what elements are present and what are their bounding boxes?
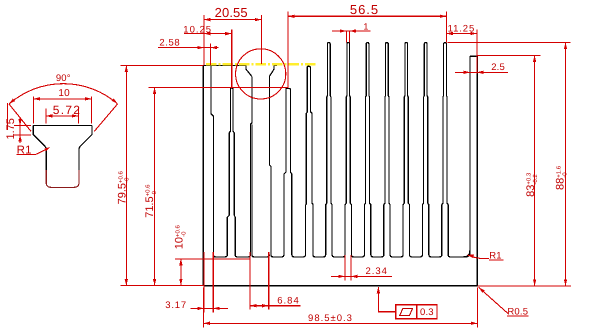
T-slot left lip cap (242, 65, 246, 67)
fin F left edge (284, 88, 287, 254)
detail dim 90deg: arc (9, 84, 118, 104)
ext line y=285.8 right (base bottom) (477, 285, 571, 287)
dim 2.58: line (158, 47, 219, 49)
detail dim 5.72: right extension (77, 109, 79, 124)
label R0.5: arrow (478, 287, 484, 293)
dim 2.5: line (455, 71, 508, 73)
tall fin 2 (1mm tip) (345, 43, 354, 257)
svg-text:56.5: 56.5 (350, 2, 379, 17)
detail view: left lip and 45deg chamfer (33, 126, 46, 182)
detail dim 10: right extension (91, 97, 93, 124)
detail circle around T-slot (236, 49, 286, 99)
T-slot right channel wall (269, 76, 273, 257)
detail dim 10: left extension (33, 97, 35, 124)
groove bottom left of tall fin 4 (373, 255, 384, 257)
svg-text:6.84: 6.84 (277, 295, 300, 306)
label R1: arrow (467, 255, 474, 258)
tall fin 4 (1mm tip) (384, 43, 393, 257)
dim 83: arrows (533, 56, 536, 63)
detail dim 90deg: chamfer extension line right (94, 104, 117, 131)
detail dim 10: arrows (34, 97, 41, 100)
dim 98.5: line (203, 322, 477, 324)
detail label R1: arrow (45, 147, 51, 151)
heatsink profile: left outer edge (202, 66, 204, 286)
groove 1 bottom (216, 255, 228, 257)
svg-text:10.25: 10.25 (183, 24, 212, 35)
feature control frame: leader (378, 287, 395, 312)
ext line y=285.4 left (base bottom) (120, 284, 203, 286)
groove bottom left of tall fin 6 (412, 255, 423, 257)
detail dim 1.75: line (19, 117, 21, 143)
groove bottom left of tall fin 2 (334, 255, 345, 257)
dim 71.5: line (154, 88, 156, 286)
feature control frame: parallelism symbol (400, 308, 413, 315)
dim 2.5: arrows (463, 71, 470, 74)
label R1: underline (489, 259, 504, 261)
ext line at T-slot centre x=261.3 (260, 15, 262, 64)
tall fin 3 (1mm tip) (364, 43, 373, 257)
feature control frame: leader arrow to base (377, 286, 380, 293)
ext line at left edge x=203.9 (203, 15, 205, 65)
detail dim 5.72: arrows (46, 114, 53, 117)
ext line y=87.5 (71.5 top, crosses profile) (149, 87, 289, 89)
svg-text:2.34: 2.34 (365, 266, 388, 277)
detail view: slot top surface line (33, 125, 92, 127)
detail dim 90deg: arrow left (9, 99, 15, 105)
label R0.5: leader (479, 287, 508, 313)
groove bottom right of last tall fin (R1 root) (450, 250, 470, 257)
svg-text:5.72: 5.72 (53, 103, 82, 117)
detail label R1: leader (36, 148, 49, 155)
detail dim 90deg: short extension tail (7, 103, 9, 130)
T-slot left chamfer and lip (246, 66, 252, 77)
groove 2 bottom (left of T-slot wall) (237, 255, 250, 257)
dim 1: ext lines (345, 31, 347, 42)
groove 4 bottom (294, 255, 306, 257)
dim 56.5: line (288, 15, 446, 17)
dim 88: arrows (564, 43, 567, 50)
svg-text:90°: 90° (56, 73, 71, 84)
label R1: leader (468, 255, 490, 259)
ext line x=446.3 (56.5 right / 11.25 left) (445, 12, 447, 43)
detail dim 1.75: top extension (14, 125, 31, 127)
svg-text:0.3: 0.3 (420, 307, 434, 318)
groove bottom left of tall fin 7 (431, 255, 442, 257)
dim 1: arrows (340, 29, 347, 32)
svg-text:2.58: 2.58 (159, 38, 180, 49)
groove bottom left of tall fin 1 (315, 255, 326, 257)
ext line x=210.6 (2.58) (210, 44, 212, 65)
tall fin 6 (1mm tip) (422, 43, 431, 257)
ext line y=258.8 (10 top) (175, 258, 250, 260)
dim 6.84: arrows (250, 304, 257, 307)
dim 79.5: line (125, 65, 127, 285)
heatsink profile: top surface line left of T-slot (203, 65, 246, 67)
svg-text:3.17: 3.17 (165, 300, 187, 311)
dim 11.25: arrows (446, 32, 453, 35)
dim 20.55: line (204, 19, 261, 21)
dim 6.84: ext lines (249, 252, 251, 309)
heatsink profile: right wall inner edge (465, 56, 470, 257)
detail dim 90deg: chamfer extension line left (9, 104, 31, 131)
yellow dash-dot centreline through T-slot surface (206, 63, 317, 65)
svg-text:10: 10 (58, 88, 70, 99)
detail dim 10: line (34, 98, 92, 100)
detail dim 5.72: left extension (45, 109, 47, 124)
feature control frame: box (396, 305, 437, 319)
svg-text:1: 1 (363, 21, 368, 31)
tall fin 5 (1mm tip) (403, 43, 412, 257)
dim 3.17: arrows (198, 307, 205, 310)
groove bottom left of tall fin 5 (392, 255, 403, 257)
ext line x=287.9 (56.5 left) (287, 12, 289, 88)
label R0.5: underline (507, 315, 529, 317)
T-slot right chamfer and lip (269, 66, 274, 77)
tall fin 7 (1mm tip) (442, 43, 451, 257)
dim 10.25: arrows (204, 32, 211, 35)
ext line x=476.8 (11.25 right / 2.5 right) (476, 29, 478, 73)
groove 3 bottom (right of T-slot) (273, 255, 284, 257)
heatsink profile: top surface stub right of T-slot (274, 65, 277, 67)
detail label R1: underline (17, 153, 37, 155)
dim 11.25: line (446, 33, 477, 35)
heatsink profile: right outer edge (476, 56, 478, 286)
svg-text:20.55: 20.55 (215, 5, 248, 20)
dim 88: line (565, 43, 567, 286)
heatsink profile: right wall top cap (470, 55, 477, 57)
fin G right edge (308, 66, 315, 257)
dim 2.34: line (331, 275, 392, 277)
dim 79.5: arrows (125, 65, 128, 72)
T-slot left channel wall (251, 76, 252, 254)
left wall right edge with step (211, 66, 216, 257)
svg-text:98.5±0.3: 98.5±0.3 (308, 313, 353, 324)
detail view: slot stem lower portion with rounded bottom (46, 170, 79, 187)
tall fin 1 (1mm tip) (326, 43, 335, 257)
dim 2.34: arrows (338, 275, 345, 278)
ext line y=55.5 (83 top) (477, 55, 540, 57)
dim 56.5: arrows (288, 15, 295, 18)
detail view: right lip and 45deg chamfer (79, 126, 92, 182)
fin G left edge (306, 66, 309, 254)
detail dim 1.75: arrows (18, 119, 21, 126)
dim 10.25: line (184, 33, 232, 35)
dim 3.17: ext lines (203, 252, 205, 313)
dim 1: line (332, 30, 371, 32)
dim 83: line (534, 56, 536, 286)
heatsink profile: base bottom line (203, 285, 477, 287)
detail dim 1.75: bottom extension (14, 134, 31, 136)
ext line y=42.6 (88 top) (448, 42, 571, 44)
svg-text:11.25: 11.25 (448, 24, 476, 35)
dim 10: arrows (179, 259, 182, 266)
fin F right edge (287, 88, 294, 257)
dim 10: line (180, 259, 182, 286)
dim 2.58: arrows (197, 46, 204, 49)
ext line x=231.7 (10.25) (231, 30, 233, 88)
fin B left edge (stepped) (227, 88, 231, 255)
dim 20.55: arrows (204, 18, 211, 21)
fin B right edge (stepped) (232, 88, 238, 257)
ext line y=65.4 left (79.5 top) (120, 64, 203, 66)
dim 3.17: line (191, 307, 229, 309)
svg-text:2.5: 2.5 (491, 62, 505, 73)
svg-text:83+0.3-0.2: 83+0.3-0.2 (525, 172, 539, 197)
detail dim 90deg: arrow right (112, 98, 118, 104)
dim 71.5: arrows (153, 88, 156, 95)
dim 2.34: ext lines (344, 255, 346, 281)
svg-text:1.75: 1.75 (5, 118, 17, 139)
dim 98.5: ext lines (202, 288, 204, 328)
dim 98.5: arrows (203, 322, 210, 325)
T-slot channel bottom (252, 124, 270, 257)
groove bottom left of tall fin 3 (354, 255, 365, 257)
dim 6.84: line (250, 305, 301, 307)
detail dim 5.72: line (46, 115, 79, 117)
